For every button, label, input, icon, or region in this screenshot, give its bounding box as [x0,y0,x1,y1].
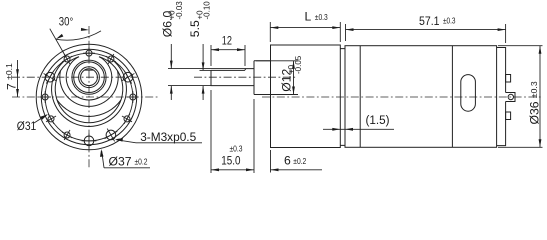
5.5 dimension line and arrows [202,44,204,70]
mounting hole 30deg [106,54,116,64]
boss chamfer circle [74,62,105,93]
svg-text:3-M3xp0.5: 3-M3xp0.5 [140,130,196,144]
mounting hole 60deg M3 [122,71,135,84]
end cap [497,48,506,146]
outer circle D37 [36,44,142,150]
D12 dimension inside gearbox [256,60,298,62]
motor can front seam [359,46,361,148]
30 deg radial extension line [50,29,65,56]
crescent shelf arc [57,100,121,116]
D6.0 dimension ext lines [168,68,246,70]
svg-text:30°: 30° [59,15,74,29]
mounting hole 150deg M3 [105,129,118,142]
terminal tab bottom [506,112,511,120]
horizontal centerline flange [12,96,160,98]
15.0 dimension [210,90,212,173]
ring between gearbox and motor [340,49,345,146]
D36 dimension [498,45,543,47]
crescent bite inner arc [66,57,112,100]
svg-text:(1.5): (1.5) [366,113,390,127]
boss D12 [254,61,271,95]
svg-text:±0.3: ±0.3 [230,144,243,154]
30 deg dimension arc [56,31,101,40]
mounting hole 90deg [127,91,139,103]
bolt circle D31 [45,53,133,141]
vertical centerline front view [88,26,90,168]
mounting hole 330deg [62,54,72,64]
mounting hole 270deg [39,91,51,103]
vent stadium [461,75,476,112]
mounting hole 0deg [83,47,95,59]
7 dimension line and arrows [17,60,19,97]
crescent outer arc [52,60,127,127]
shaft flat chord [84,69,93,71]
svg-text:L±0.3: L±0.3 [305,10,328,24]
arrowhead 30deg right [81,28,89,31]
svg-text:12: 12 [222,34,232,48]
gearbox body [271,45,341,148]
mounting hole 240deg [46,114,56,124]
(1.5) dimension [323,128,394,130]
shaft circle D6 [81,69,98,86]
mounting hole 180deg M3 [82,133,97,148]
terminal tab top [506,75,511,83]
L dimension [269,22,271,42]
arrowhead 30deg left [56,34,64,39]
bearing circle [79,67,100,88]
crescent ring arc [55,57,123,123]
svg-text:6±0.2: 6±0.2 [284,154,306,168]
svg-text:Ø31: Ø31 [17,119,37,133]
boss circle D12 [72,60,106,94]
crescent bite outer arc [60,71,118,107]
shaft outline with flat [211,69,254,86]
terminal hole [508,94,513,99]
6 dimension [270,150,272,173]
step circle [41,49,136,144]
mounting hole 210deg [62,130,72,140]
body axis centerline side view [262,96,541,98]
12 dimension [210,45,212,66]
mounting hole 300deg M3 [44,71,57,84]
mounting hole 120deg [122,114,132,124]
motor can [345,46,497,148]
terminal tab center [506,93,515,102]
57.1 dimension [345,24,347,41]
D6.0 dimension line and arrows [170,44,172,69]
shaft axis centerline side view [194,76,297,78]
motor end bell seam [451,46,453,148]
svg-text:15.0: 15.0 [221,154,241,168]
horizontal centerline shaft axis front view [12,76,137,78]
